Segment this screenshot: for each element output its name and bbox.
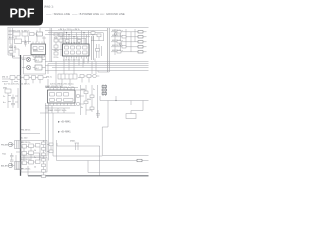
column comp 5	[42, 164, 46, 167]
block box B1	[13, 32, 20, 36]
block box B5	[35, 65, 42, 70]
wire right of U1	[97, 44, 102, 58]
U3 internal blocks	[50, 93, 74, 102]
capacitor C4	[66, 40, 70, 43]
IC U2	[31, 44, 46, 55]
resistor R16	[84, 101, 88, 104]
IC U3	[48, 90, 76, 103]
svg-text:4M 4c: 4M 4c	[54, 50, 59, 52]
svg-text:75Ω: 75Ω	[2, 154, 6, 156]
bus wire double vertical	[50, 28, 52, 62]
capacitor C9	[96, 49, 100, 52]
svg-text:2c: 2c	[34, 157, 36, 159]
cluster label smudge mid	[21, 159, 30, 161]
U1 bottom rail wires	[45, 62, 95, 71]
resistor R7	[97, 34, 101, 37]
J2 label smudge	[1, 165, 9, 168]
svg-text:(Md) 1:: (Md) 1:	[44, 5, 54, 9]
connector pad P3	[138, 41, 143, 43]
U1 pin number smudge top	[63, 42, 80, 44]
U3 top pins	[50, 88, 75, 91]
right vertical interconnects	[115, 29, 135, 55]
routing rail 4	[58, 36, 90, 38]
transistor Q2	[76, 102, 80, 106]
connector pad P4	[138, 46, 143, 48]
column comp 2	[42, 148, 46, 151]
bottom band text smudge row	[2, 76, 9, 78]
value label row	[4, 84, 31, 86]
column comp 6	[42, 170, 46, 173]
resistor R5	[59, 39, 63, 42]
U1 bottom pins	[64, 56, 89, 59]
svg-text:1k: 1k	[34, 166, 36, 168]
cluster top label smudges	[21, 130, 31, 140]
note header text	[44, 5, 54, 9]
cluster box K3	[36, 144, 41, 148]
capacitor C7	[11, 101, 15, 108]
heavy bus wire left	[20, 55, 22, 176]
wire	[22, 60, 46, 71]
connector pad P2	[138, 36, 143, 38]
comp row right boxes	[80, 75, 84, 78]
column comp 1	[42, 142, 46, 145]
wire	[2, 77, 47, 79]
block box B3	[15, 39, 22, 44]
wire	[12, 74, 99, 88]
svg-text:1k: 1k	[34, 150, 36, 152]
+B label arrow 1	[58, 121, 71, 124]
wire	[52, 36, 62, 56]
wire	[91, 31, 104, 41]
svg-text:3M: 3M	[12, 56, 15, 58]
junction dots	[66, 32, 85, 37]
comp band text smudges	[46, 77, 75, 90]
U1 internal block row 1	[65, 46, 88, 49]
U1 internal block row 2	[65, 51, 88, 54]
column comp 7	[42, 175, 46, 178]
legend: b power line	[72, 12, 99, 16]
left frame wire	[7, 28, 9, 56]
routing label smudge row	[58, 29, 80, 31]
B7 internal	[61, 74, 73, 79]
U1 right bus wire	[92, 36, 94, 60]
capacitor C1	[24, 40, 27, 47]
routing rail 5	[62, 38, 86, 40]
connector pad P1	[138, 31, 143, 33]
resistor R2	[54, 33, 58, 36]
svg-text:4c 220: 4c 220	[21, 138, 28, 140]
U3 top rail wire	[45, 87, 78, 89]
U3 bottom label smudge	[48, 110, 68, 112]
mid horizontal wire	[40, 112, 75, 114]
svg-text:4M 220 1k c: 4M 220 1k c	[112, 35, 123, 37]
svg-text:══ : GROUND LINE: ══ : GROUND LINE	[99, 12, 125, 16]
comp field wires	[81, 85, 98, 118]
field label smudges	[81, 89, 95, 109]
L-wire to right edge 2	[57, 140, 149, 161]
band tick row	[2, 81, 18, 83]
resistor R12	[117, 51, 121, 53]
svg-text:4M41: 4M41	[70, 141, 76, 143]
cluster label smudge top	[21, 142, 30, 144]
resistor R14	[84, 91, 88, 94]
left col text smudges	[3, 87, 8, 104]
wire	[76, 90, 92, 110]
IC U1	[63, 44, 90, 56]
wire	[45, 106, 76, 114]
cluster box K7	[29, 161, 34, 165]
capacitor C6	[11, 95, 15, 102]
transistor Q4	[114, 33, 117, 36]
wide block box B7	[58, 74, 77, 79]
block box B8	[37, 32, 43, 36]
resistor R13	[5, 89, 11, 93]
L-wire to right edge 1	[53, 113, 102, 156]
jack J2	[8, 163, 13, 168]
column text smudges	[54, 38, 59, 59]
junction dot	[115, 100, 116, 101]
resistor R11	[122, 46, 126, 48]
U2 bottom pins	[33, 55, 45, 58]
wire	[11, 45, 19, 56]
cluster wires	[16, 146, 40, 169]
fuse F1 on line	[137, 159, 142, 162]
transistor Q3	[93, 74, 97, 78]
heavy bus label smudge	[12, 56, 15, 58]
capacitor C5	[78, 40, 82, 43]
bottom heavy bus wire	[28, 175, 149, 177]
wire	[27, 166, 29, 176]
wire	[8, 55, 45, 58]
svg-text:4c: 4c	[81, 107, 83, 109]
capacitor C10	[10, 44, 13, 50]
svg-text:—— : B POWER LINE: —— : B POWER LINE	[72, 12, 99, 16]
coil L2	[26, 65, 30, 69]
resistor R21	[49, 150, 53, 153]
transistor Q5	[119, 43, 122, 46]
pin riser wires	[63, 31, 89, 45]
right section label smudges	[112, 30, 123, 52]
svg-text:2 4 6 8 0 2 4 6 8 0 2: 2 4 6 8 0 2 4 6 8 0 2	[63, 59, 80, 61]
component row boxes	[10, 76, 43, 80]
resistor R15	[90, 95, 94, 98]
wire	[8, 28, 46, 58]
svg-text:c 4M 1k c 220 4u c 4M 1k: c 4M 1k c 220 4u c 4M 1k	[58, 29, 80, 31]
left mid text smudge	[9, 37, 17, 49]
cluster box K4	[22, 152, 27, 156]
connector J4	[75, 143, 80, 150]
block box B4	[35, 57, 42, 62]
svg-text:▶ +B 4M41: ▶ +B 4M41	[58, 121, 71, 124]
resistor R20	[49, 143, 53, 146]
svg-text:4M41 220 47 1k 2c: 4M41 220 47 1k 2c	[48, 110, 68, 112]
+B label arrow 2	[58, 131, 71, 134]
wire drop left pair	[46, 103, 49, 161]
resistor R17	[90, 107, 94, 110]
routing rail 2	[48, 32, 103, 34]
capacitor C3	[54, 52, 58, 55]
transformer T1	[15, 141, 21, 149]
cluster box K2	[29, 144, 34, 148]
L-wire corner to edge	[102, 127, 148, 156]
cluster box K8	[36, 160, 41, 164]
wire	[143, 32, 147, 52]
svg-text:1 2 3 4 5 6 7 8 9 0 1: 1 2 3 4 5 6 7 8 9 0 1	[63, 42, 80, 44]
svg-text:PDF: PDF	[10, 7, 35, 21]
cluster smudge extra	[34, 150, 36, 168]
routing rail 3	[45, 34, 98, 36]
svg-text:2c: 2c	[93, 89, 95, 91]
stepped wire	[131, 101, 143, 114]
U3 label smudge	[45, 86, 63, 88]
top-left label smudge row	[9, 30, 30, 33]
block box B2	[22, 32, 28, 36]
resistor R10	[117, 41, 121, 43]
shield box	[24, 56, 46, 75]
mid label smudge	[2, 154, 6, 156]
resistor R19	[9, 51, 13, 54]
column comp 3	[42, 153, 46, 156]
shield box FM	[21, 141, 47, 157]
svg-text:4u 1c: 4u 1c	[9, 37, 15, 39]
transformer T2 core	[16, 162, 18, 170]
U2 internal blocks	[33, 47, 44, 52]
connector J3	[102, 85, 107, 97]
svg-text:4M 220 1k: 4M 220 1k	[21, 168, 30, 170]
U2 label smudge	[33, 50, 39, 52]
right section row wires	[111, 32, 138, 52]
long wire to right edge	[100, 100, 149, 102]
resistor R8	[117, 31, 121, 33]
jack J1	[8, 142, 13, 147]
U3 bottom pins	[50, 103, 75, 106]
wire	[8, 88, 18, 108]
wire risers below U1	[48, 59, 96, 75]
wire	[100, 96, 108, 127]
wire to edge y172	[88, 161, 149, 173]
transistor Q1	[76, 94, 80, 98]
resistor R1	[30, 33, 35, 36]
frame wire top	[57, 143, 100, 146]
wire	[130, 101, 132, 106]
divider bus wire	[108, 28, 110, 72]
wire	[115, 96, 117, 101]
resistor R9	[122, 36, 126, 38]
wire	[47, 144, 51, 151]
svg-text:4M 1k: 4M 1k	[2, 76, 9, 78]
resistor R18	[87, 75, 91, 78]
capacitor C12	[10, 160, 14, 161]
capacitor C11	[10, 153, 14, 159]
resistor R4	[54, 39, 58, 42]
resistor R6	[91, 32, 95, 35]
bottom mid label smudge	[70, 141, 76, 143]
shield label smudge	[36, 60, 40, 70]
wire	[21, 133, 40, 135]
resistor R3	[59, 33, 63, 36]
svg-text:FM 4M 1k: FM 4M 1k	[21, 130, 31, 132]
transformer T1 core	[16, 141, 18, 149]
right mid bus wires	[83, 62, 149, 71]
wire	[83, 59, 109, 73]
svg-text:4M41: 4M41	[33, 50, 39, 52]
svg-text:22 1k: 22 1k	[54, 57, 59, 59]
wire	[12, 142, 23, 169]
svg-text:▶ +B 4M41: ▶ +B 4M41	[58, 131, 71, 134]
svg-text:4M 2c: 4M 2c	[46, 77, 53, 79]
U1 pin number smudge bottom	[63, 59, 80, 61]
block box B6	[126, 114, 136, 119]
coil L1	[26, 57, 30, 61]
capacitor C2	[54, 45, 58, 48]
connector pad P5	[138, 51, 143, 53]
svg-text:—— : SIGNAL LINE: —— : SIGNAL LINE	[46, 12, 70, 16]
routing rail 1	[45, 30, 107, 32]
svg-text:4c7 1k 220 47u 10k 4M 2s: 4c7 1k 220 47u 10k 4M 2s	[4, 84, 31, 86]
top border wire	[8, 27, 149, 29]
cluster box K6	[22, 161, 27, 165]
comp column wire	[43, 140, 45, 178]
capacitor C8	[96, 110, 100, 118]
frame wire right	[99, 146, 101, 176]
cluster box K5	[29, 151, 34, 155]
legend: ground line	[99, 12, 125, 16]
cluster label smudge bottom	[21, 168, 30, 170]
legend: signal line	[46, 12, 70, 16]
shield box AM	[21, 158, 47, 173]
U2 top pins	[33, 42, 45, 45]
cluster box K1	[22, 145, 27, 149]
J1 label smudge	[1, 144, 9, 147]
column comp 4	[42, 159, 46, 162]
PDF badge	[0, 0, 43, 26]
transformer T2	[15, 162, 21, 170]
